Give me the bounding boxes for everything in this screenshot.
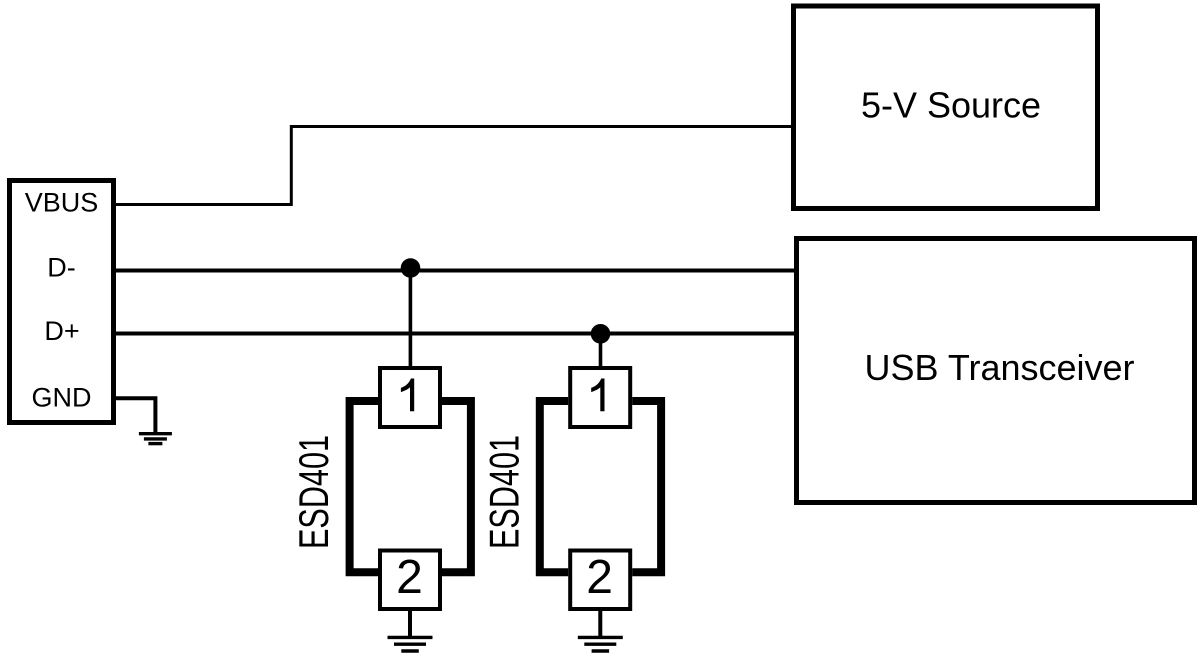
svg-text:2: 2 xyxy=(586,551,613,604)
svg-text:D-: D- xyxy=(47,253,76,283)
svg-text:2: 2 xyxy=(396,551,423,604)
svg-text:5-V Source: 5-V Source xyxy=(861,85,1041,126)
svg-text:VBUS: VBUS xyxy=(25,188,99,218)
svg-text:GND: GND xyxy=(32,383,92,413)
svg-text:D+: D+ xyxy=(44,316,79,346)
svg-text:ESD401: ESD401 xyxy=(290,435,337,549)
svg-text:ESD401: ESD401 xyxy=(481,435,528,549)
svg-text:USB Transceiver: USB Transceiver xyxy=(864,347,1134,388)
